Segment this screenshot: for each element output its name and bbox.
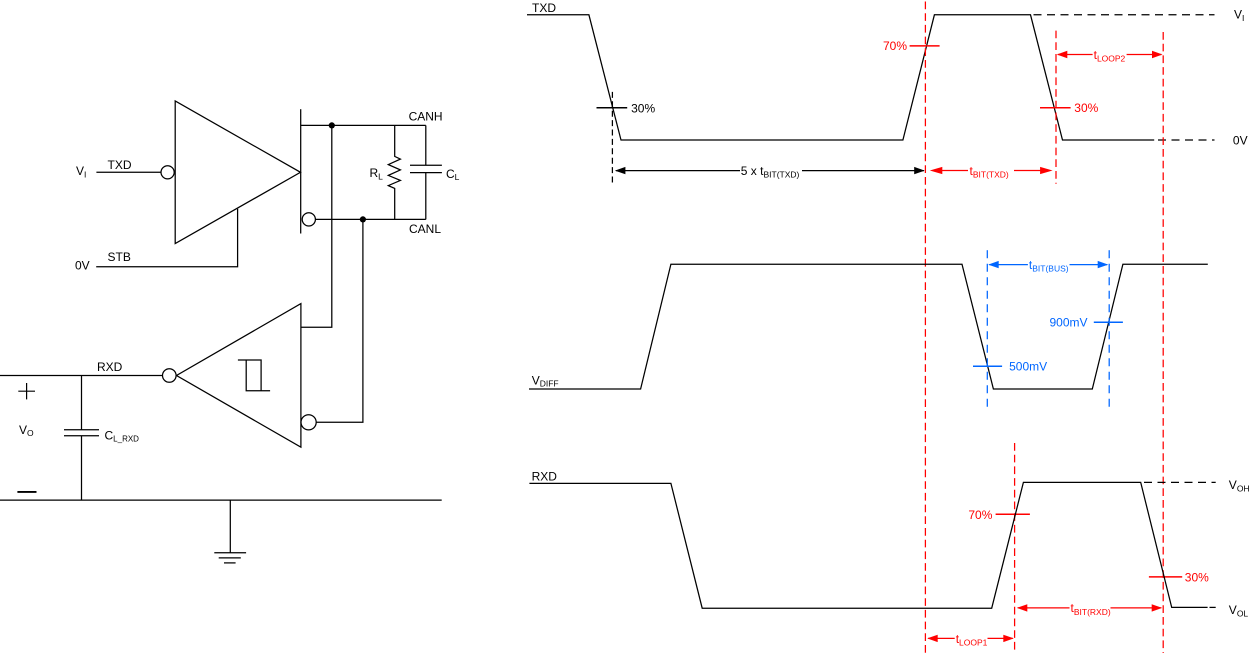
svg-text:30%: 30% xyxy=(1074,101,1098,115)
svg-text:tBIT(TXD): tBIT(TXD) xyxy=(970,164,1009,179)
500mV tick blue xyxy=(973,360,1047,374)
svg-text:STB: STB xyxy=(108,250,131,264)
capacitor CL_RXD xyxy=(64,376,139,501)
svg-text:0V: 0V xyxy=(1233,134,1248,148)
dashed marker line (30% fall) xyxy=(611,92,613,184)
wire STB xyxy=(96,209,237,267)
dashed level 0V xyxy=(1158,139,1215,141)
svg-text:70%: 70% xyxy=(968,508,992,522)
waveform VDIFF xyxy=(529,264,1208,389)
junction CANL xyxy=(360,216,366,222)
inverting bubble CANL xyxy=(302,213,315,226)
ground xyxy=(214,500,246,563)
svg-text:TXD: TXD xyxy=(532,1,556,15)
cursor line 1 (red) xyxy=(924,2,926,653)
svg-text:30%: 30% xyxy=(1185,570,1209,584)
svg-text:CANH: CANH xyxy=(409,109,443,123)
svg-text:VI: VI xyxy=(76,164,86,179)
cursor blue 2 xyxy=(1108,250,1110,407)
svg-text:VI: VI xyxy=(1234,7,1244,22)
probe plus xyxy=(18,383,35,399)
ground rail xyxy=(0,499,442,501)
svg-text:VDIFF: VDIFF xyxy=(532,374,559,389)
driver U1 xyxy=(161,101,301,244)
30% tick red (TXD) xyxy=(1040,101,1099,115)
wire CANL to receiver inverting input xyxy=(316,219,363,422)
wire CANH xyxy=(301,124,426,126)
svg-text:500mV: 500mV xyxy=(1009,360,1047,374)
svg-text:tBIT(RXD): tBIT(RXD) xyxy=(1071,601,1111,617)
900mV tick blue xyxy=(1049,316,1122,330)
svg-text:5 x tBIT(TXD): 5 x tBIT(TXD) xyxy=(741,164,800,180)
svg-text:CL: CL xyxy=(446,167,460,182)
svg-text:CL_RXD: CL_RXD xyxy=(105,428,140,443)
svg-text:70%: 70% xyxy=(883,39,907,53)
waveform RXD xyxy=(529,482,1207,608)
svg-text:TXD: TXD xyxy=(108,158,132,172)
capacitor CL xyxy=(410,125,460,219)
dashed level VOL xyxy=(1210,606,1216,608)
dashed level VI xyxy=(1034,14,1215,16)
30% tick black xyxy=(597,102,656,116)
svg-text:tLOOP1: tLOOP1 xyxy=(956,632,988,648)
svg-text:tBIT(BUS): tBIT(BUS) xyxy=(1029,258,1069,274)
cursor line 3 (red) xyxy=(1162,32,1164,653)
wire CANL xyxy=(315,218,425,220)
waveform TXD xyxy=(527,15,1154,140)
svg-text:RL: RL xyxy=(370,166,384,181)
svg-text:tLOOP2: tLOOP2 xyxy=(1094,48,1126,64)
svg-text:VO: VO xyxy=(19,423,34,438)
dimension tLOOP2 xyxy=(1057,48,1163,64)
resistor RL xyxy=(370,125,401,219)
dashed level VOH xyxy=(1144,481,1216,483)
30% tick red (RXD) xyxy=(1149,570,1209,584)
cursor blue 1 xyxy=(986,250,988,407)
cursor line 2 (red) xyxy=(1055,31,1057,184)
svg-text:RXD: RXD xyxy=(532,469,558,483)
wire TXD input xyxy=(96,171,161,173)
svg-text:900mV: 900mV xyxy=(1049,316,1087,330)
receiver U2 xyxy=(163,304,317,448)
cursor line 4 (red) xyxy=(1014,443,1016,653)
svg-text:CANL: CANL xyxy=(409,222,441,236)
svg-text:0V: 0V xyxy=(75,258,90,272)
wire RXD xyxy=(0,375,163,377)
dimension tBIT(TXD) xyxy=(930,164,1053,179)
70% tick red (TXD) xyxy=(883,39,940,53)
70% tick red (RXD) xyxy=(968,508,1030,522)
dimension tBIT(BUS) xyxy=(988,258,1108,274)
wire CANH to receiver input xyxy=(301,125,332,327)
svg-text:VOH: VOH xyxy=(1229,478,1250,493)
dimension tBIT(RXD) xyxy=(1017,601,1162,617)
svg-text:30%: 30% xyxy=(631,102,655,116)
dimension tLOOP1 xyxy=(927,632,1014,648)
dimension 5 x tBIT(TXD) xyxy=(615,164,925,180)
bus bar at driver output xyxy=(300,109,302,233)
junction CANH xyxy=(329,122,335,128)
probe minus xyxy=(17,491,36,493)
svg-text:RXD: RXD xyxy=(97,360,123,374)
svg-text:VOL: VOL xyxy=(1229,603,1249,618)
